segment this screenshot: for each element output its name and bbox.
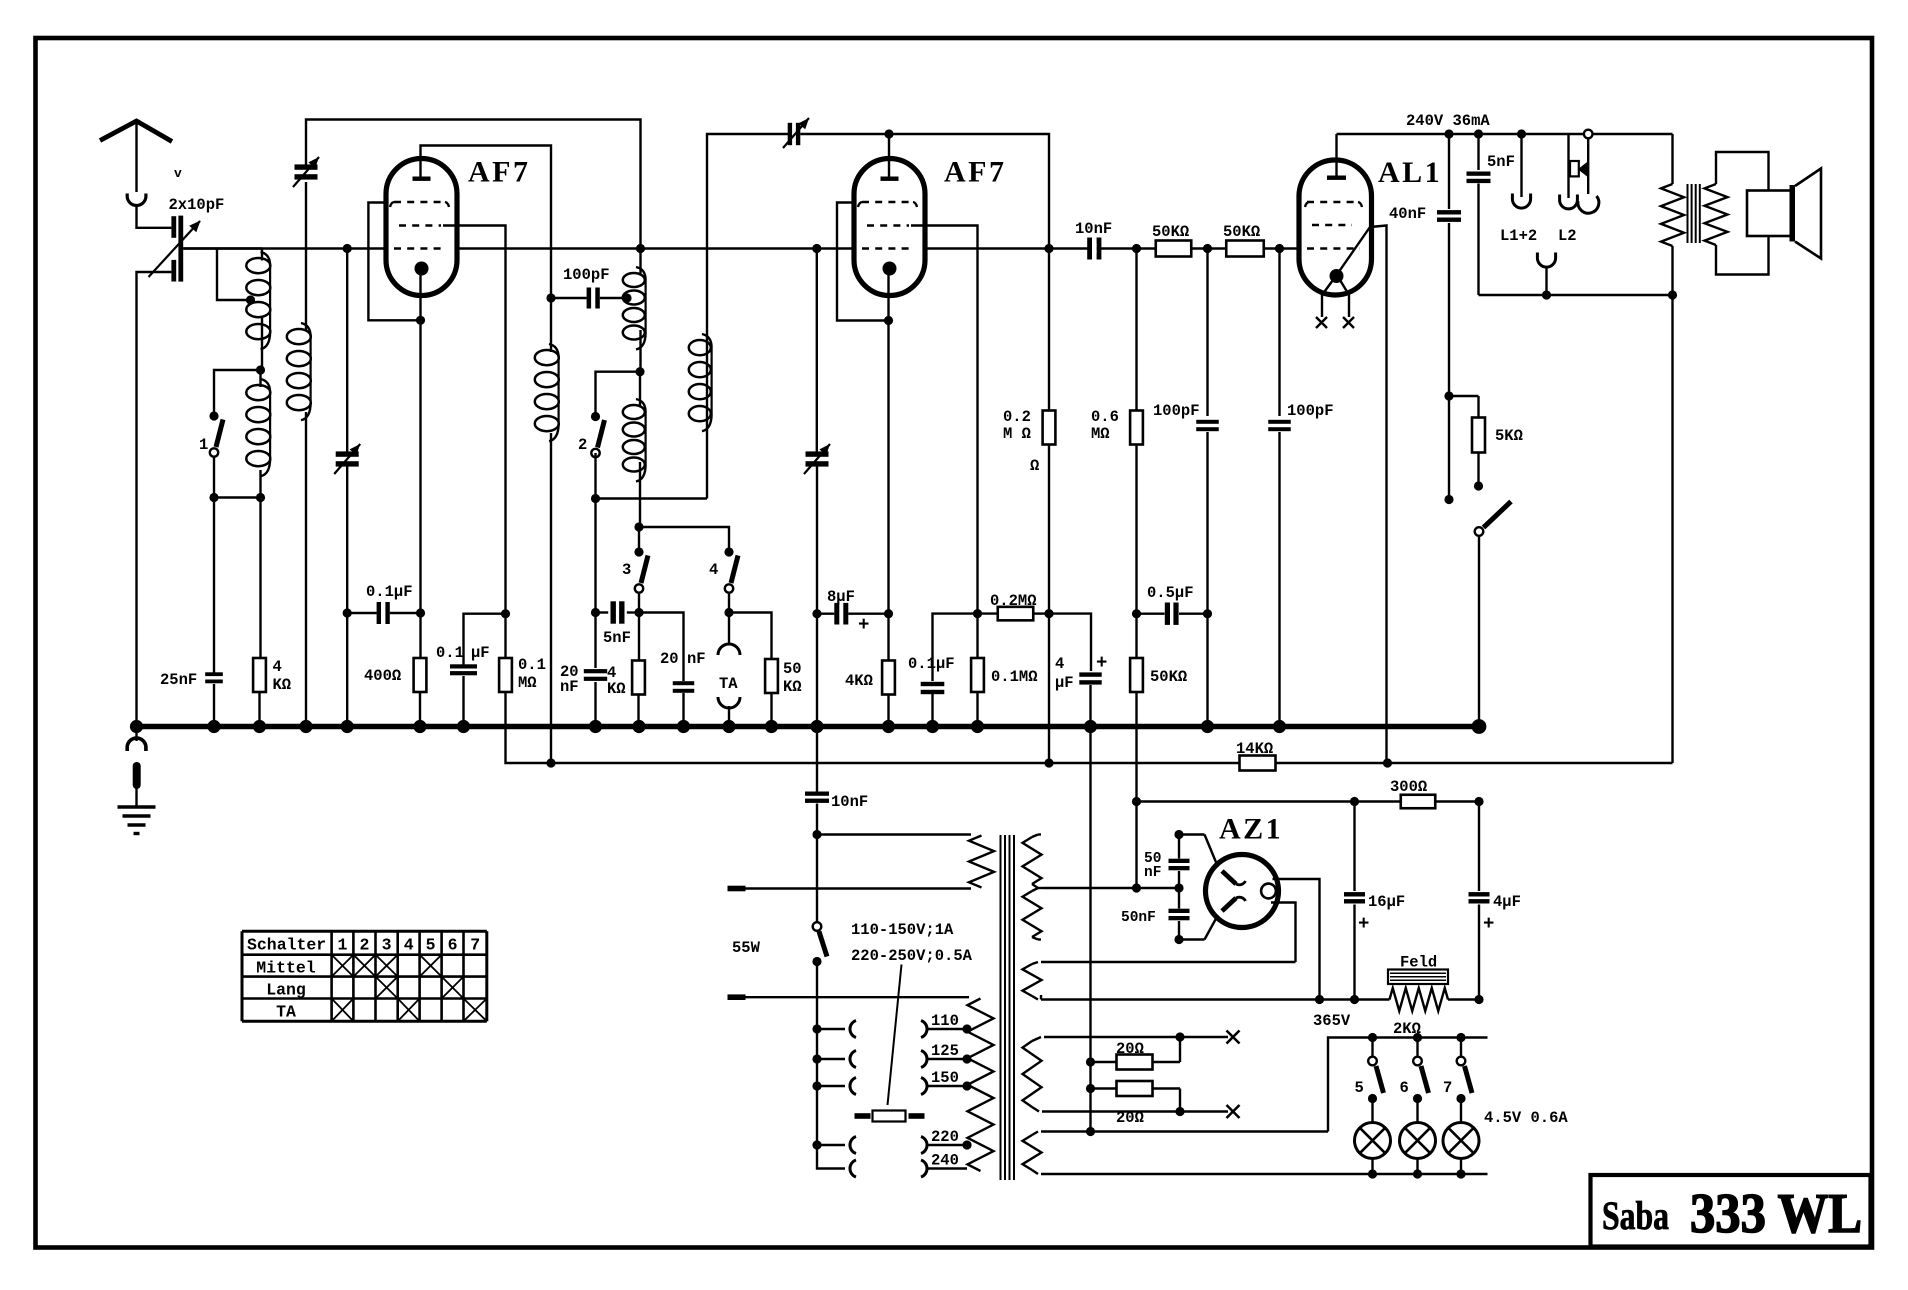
junction L1+2 top	[1517, 129, 1526, 138]
wire 0.1M to rail	[504, 692, 506, 694]
svg-text:M Ω: M Ω	[1003, 425, 1031, 443]
svg-text:5: 5	[1355, 1079, 1364, 1097]
speaker cone	[1795, 169, 1821, 259]
junction bus	[207, 720, 220, 733]
ground stub	[133, 762, 141, 789]
svg-text:Saba: Saba	[1602, 1193, 1669, 1238]
wire 100pF1 line	[1206, 249, 1208, 417]
wire branch to switch4	[639, 527, 729, 549]
wire to output transformer	[1593, 133, 1673, 135]
selector contacts right with taps	[921, 1021, 927, 1038]
transformer core	[1687, 184, 1689, 243]
svg-text:0.5µF: 0.5µF	[1147, 584, 1194, 602]
inductor coil3	[702, 334, 712, 348]
svg-text:MΩ: MΩ	[518, 674, 537, 692]
wire to 4K3	[887, 614, 889, 661]
junction bus	[1084, 720, 1097, 733]
wire AZ1 top-left	[1179, 833, 1205, 835]
junction lamp 6 top	[1413, 1033, 1422, 1042]
svg-text:150: 150	[931, 1069, 959, 1087]
connector L2 with switch	[1567, 135, 1569, 198]
svg-text:KΩ: KΩ	[607, 680, 626, 698]
capacitor 8uF electrolytic	[817, 613, 834, 615]
junction HV center	[1174, 883, 1183, 892]
lamp 6	[1416, 1099, 1418, 1123]
wire AZ1 bottom-left	[1179, 938, 1205, 940]
resistor 50K audio	[765, 659, 778, 693]
junction bus	[341, 720, 354, 733]
fuse	[855, 1113, 871, 1119]
junction coil2 tap 100pF	[622, 293, 631, 302]
svg-text:nF: nF	[560, 678, 579, 696]
svg-text:3: 3	[382, 936, 392, 955]
svg-text:+: +	[1483, 913, 1494, 935]
wire 0.2M to rail763	[1048, 614, 1050, 763]
junction 8uF left	[812, 609, 821, 618]
svg-text:55W: 55W	[732, 939, 761, 957]
wire to coil3 bottom	[596, 497, 708, 499]
junction 40nF top	[1444, 129, 1453, 138]
wire cathode2	[887, 274, 889, 321]
svg-text:8µF: 8µF	[827, 588, 855, 606]
wire branch to coil tap	[217, 249, 249, 301]
svg-text:0.1µF: 0.1µF	[366, 583, 413, 601]
svg-text:20: 20	[660, 650, 679, 668]
wire 20nF2 branch	[639, 613, 684, 682]
wire sw3 down	[638, 593, 640, 613]
capacitor 50nF upper	[1178, 835, 1180, 859]
svg-text:Mittel: Mittel	[256, 959, 316, 978]
connector L1+2	[1520, 134, 1522, 197]
junction sw4/TA/50K	[724, 608, 733, 617]
junction bus	[1201, 720, 1214, 733]
wire grid3 line	[924, 247, 1300, 249]
junction anode1 100pF	[546, 293, 555, 302]
resistor 20 second	[1086, 1084, 1095, 1093]
svg-text:4: 4	[404, 936, 414, 955]
junction sw2 bottom	[591, 494, 600, 503]
jack rest contact	[1570, 161, 1579, 176]
x mark TA 4	[398, 999, 420, 1022]
svg-text:5nF: 5nF	[1487, 153, 1515, 171]
wire cathode2 down	[887, 321, 889, 614]
wire 4K2 to bus	[637, 695, 639, 727]
junction 5K branch	[1444, 391, 1453, 400]
wire secondary bottom	[1716, 236, 1769, 275]
junction 300 left rail	[1132, 797, 1141, 806]
wire 0.1uF2 jog	[464, 614, 506, 665]
junction cathode2	[884, 316, 893, 325]
svg-text:AF7: AF7	[468, 156, 531, 189]
selector contacts left	[812, 1024, 821, 1033]
junction bus	[589, 720, 602, 733]
capacitor 4uF second electrolytic	[1469, 892, 1490, 896]
junction bus	[882, 720, 895, 733]
junction heater top	[1086, 1127, 1095, 1136]
svg-text:Feld: Feld	[1400, 954, 1437, 972]
junction coil mid	[256, 365, 265, 374]
wire join	[214, 496, 261, 498]
svg-text:0.6: 0.6	[1091, 408, 1119, 426]
wire top line y119	[306, 120, 641, 249]
svg-text:TA: TA	[276, 1003, 296, 1022]
capacitor 0.1uF cathode1	[347, 612, 376, 614]
junction anode1/rail	[546, 758, 555, 767]
wire T1 to coil2sec	[305, 182, 307, 331]
svg-text:Ω: Ω	[1030, 457, 1039, 475]
capacitor 25nF	[205, 672, 223, 676]
wire lamps bottom rail	[1041, 1173, 1488, 1175]
svg-text:L2: L2	[1558, 227, 1577, 245]
wire to 5K	[1449, 395, 1479, 397]
x mark Mittel 2	[353, 955, 375, 977]
junction bus	[413, 720, 426, 733]
capacitor 10nF mains	[805, 792, 829, 796]
svg-text:125: 125	[931, 1042, 959, 1060]
resistor 0.2M grid3	[1043, 411, 1056, 445]
resistor 50K third	[1130, 658, 1143, 692]
junction HV top	[1174, 830, 1183, 839]
inductor antenna coil upper	[261, 252, 271, 266]
x mark Mittel 5	[420, 955, 442, 977]
junction bus	[1273, 720, 1286, 733]
wire cathode feedback loop	[368, 203, 420, 321]
tube AF7 second	[854, 159, 925, 296]
wire to 400ohm	[419, 613, 421, 658]
capacitor 4uF electrolytic	[1079, 672, 1101, 676]
junction bus	[810, 720, 823, 733]
wire to mains switch	[816, 835, 818, 923]
wire 365V line	[1041, 998, 1390, 1000]
wire 16uF line	[1353, 802, 1355, 892]
svg-text:10nF: 10nF	[1075, 220, 1112, 238]
wire rail-763	[506, 694, 1673, 763]
wire to switch3	[638, 527, 640, 549]
junction bus	[971, 720, 984, 733]
AL1 cathode diagonal exit	[1338, 227, 1370, 273]
wire to bus	[346, 613, 348, 727]
wire HV center tap	[1044, 887, 1179, 889]
svg-text:20Ω: 20Ω	[1116, 1040, 1144, 1058]
wire 25nF to bus	[213, 684, 215, 727]
wire 240V line	[1337, 133, 1585, 135]
junction 16uF top	[1350, 797, 1359, 806]
wire selector pole	[816, 962, 818, 1146]
inductor osc coil lower	[636, 399, 646, 412]
junction transformer return	[1668, 290, 1677, 299]
wire coil1 top	[261, 249, 263, 261]
svg-text:2x10pF: 2x10pF	[169, 196, 225, 214]
svg-text:2: 2	[359, 936, 369, 955]
wire tube2 plate riser	[888, 134, 890, 177]
capacitor 2x10pF variable	[171, 216, 176, 238]
svg-text:7: 7	[1443, 1079, 1452, 1097]
capacitor 5nF	[596, 611, 609, 613]
svg-text:50: 50	[783, 660, 802, 678]
svg-text:25nF: 25nF	[160, 671, 197, 689]
resistor 4K second	[632, 661, 645, 695]
junction cup return	[1542, 290, 1551, 299]
inductor osc coil upper	[636, 267, 646, 280]
svg-text:6: 6	[448, 936, 458, 955]
resistor 0.2M coupling	[978, 612, 999, 614]
jack switch contact	[1587, 138, 1589, 194]
switch 3	[634, 547, 643, 556]
wire coil2 top	[639, 249, 641, 276]
junction lamp 5 bottom	[1368, 1169, 1377, 1178]
wire to 0.1M	[504, 614, 506, 658]
svg-text:100pF: 100pF	[563, 266, 610, 284]
junction bus	[457, 720, 470, 733]
resistor 300	[1401, 795, 1436, 809]
junction bus	[130, 720, 143, 733]
switch 2	[591, 412, 600, 421]
svg-text:0.1MΩ: 0.1MΩ	[991, 668, 1038, 686]
resistor 0.1M screen2	[971, 658, 984, 692]
wire bottom stator to ground line	[137, 272, 172, 727]
junction 4uF2 top	[1474, 797, 1483, 806]
junction lamp 7 top	[1456, 1033, 1465, 1042]
primary winding upper	[969, 836, 994, 888]
resistor 400	[414, 658, 427, 692]
junction grid2 node coil2 top	[636, 244, 645, 253]
svg-text:4µF: 4µF	[1493, 893, 1521, 911]
junction coil1 bottom	[256, 493, 265, 502]
junction bus	[299, 720, 312, 733]
switch 1	[209, 411, 218, 420]
junction sw1/coil1 bottom	[209, 493, 218, 502]
wire 4uF jog	[1049, 614, 1091, 671]
junction screen1 node	[501, 609, 510, 618]
x mark lead bottom	[1227, 1105, 1240, 1118]
connector TA jack	[728, 613, 730, 646]
svg-text:5KΩ: 5KΩ	[1495, 427, 1523, 445]
tube AL1	[1299, 160, 1372, 295]
svg-text:14KΩ: 14KΩ	[1236, 740, 1273, 758]
AL1 cathode	[1330, 269, 1344, 283]
junction 16uF bottom	[1350, 995, 1359, 1004]
capacitor trimmer T2	[336, 451, 359, 456]
wire coil1 lower top	[259, 370, 261, 387]
wire 50K2 to bus	[770, 693, 772, 727]
wire T2 to 0.1uF	[346, 466, 348, 613]
svg-text:+: +	[1096, 652, 1107, 674]
junction 0.2M right	[1044, 609, 1053, 618]
svg-text:TA: TA	[719, 675, 738, 693]
svg-text:50KΩ: 50KΩ	[1223, 223, 1260, 241]
svg-text:4: 4	[709, 561, 718, 579]
switch 6	[1416, 1038, 1418, 1058]
wire sw4 down	[728, 593, 730, 613]
wire 400 to bus	[419, 692, 421, 727]
wire lamps top rail	[1328, 1038, 1488, 1132]
svg-text:7: 7	[470, 936, 480, 955]
svg-text:10nF: 10nF	[831, 793, 868, 811]
resistor 4K first	[253, 658, 266, 692]
wire coil1 bottom	[259, 470, 261, 498]
svg-text:100pF: 100pF	[1287, 402, 1334, 420]
junction bus	[632, 720, 645, 733]
wire 4uF2 line	[1478, 802, 1480, 892]
svg-text:µF: µF	[936, 655, 955, 673]
svg-text:KΩ: KΩ	[273, 676, 292, 694]
wire switch to bus end	[1478, 536, 1480, 727]
capacitor 100pF second	[1268, 420, 1291, 424]
junction coil tap	[246, 295, 255, 304]
wire screen2	[911, 226, 978, 614]
resistor 0.1M screen1	[499, 658, 512, 692]
wire jack return	[1479, 294, 1673, 296]
svg-text:220-250V;0.5A: 220-250V;0.5A	[851, 947, 973, 965]
ground	[135, 788, 137, 806]
svg-text:Schalter: Schalter	[247, 936, 326, 955]
svg-text:AZ1: AZ1	[1219, 813, 1283, 846]
antenna	[100, 121, 172, 142]
x mark Mittel 1	[332, 955, 354, 977]
svg-text:240V 36mA: 240V 36mA	[1406, 112, 1490, 130]
wire switch2 down	[594, 453, 596, 499]
capacitor 100pF first	[1196, 420, 1219, 424]
svg-text:0.1: 0.1	[518, 656, 546, 674]
wire anode2 to 10nF corner	[889, 134, 1049, 249]
junction lamp 7 bottom	[1456, 1169, 1465, 1178]
wire coil1 mid	[261, 318, 263, 369]
svg-text:v: v	[174, 166, 182, 181]
lamp 7	[1460, 1099, 1462, 1123]
junction HV bottom	[1174, 935, 1183, 944]
wire coil sec to bus	[305, 412, 307, 727]
capacitor trimmer T1	[295, 164, 318, 169]
svg-text:µF: µF	[471, 644, 490, 662]
wire AL1 plate riser	[1335, 134, 1337, 176]
wire coil2 lower top	[639, 372, 641, 407]
capacitor 0.5uF	[1137, 613, 1165, 615]
inductor antenna secondary	[301, 323, 311, 337]
wire to 20nF1	[594, 613, 596, 669]
AZ1 anode small circle	[1261, 884, 1276, 899]
wire cathode2 loop	[837, 203, 889, 321]
capacitor trimmer T4	[806, 451, 829, 456]
x mark Lang 3	[376, 977, 398, 999]
resistor 0.6M	[1130, 411, 1143, 445]
svg-text:0.1: 0.1	[436, 644, 464, 662]
capacitor 10nF coupling	[1087, 238, 1092, 260]
connector open circle	[1584, 130, 1593, 139]
junction bus	[926, 720, 939, 733]
wire bias bottom row	[1042, 1110, 1180, 1112]
inductor HV secondary	[1023, 837, 1042, 884]
wire 20nF2 to bus	[682, 693, 684, 727]
tube AZ1	[1206, 855, 1279, 928]
wire to 4K2	[638, 613, 640, 662]
junction 0.1uF right	[416, 608, 425, 617]
resistor 20 first	[1086, 1057, 1095, 1066]
table Schalter	[242, 930, 487, 933]
wire grid2 line	[457, 247, 854, 249]
resistor 2K field coil	[1390, 988, 1449, 1011]
wire HV top hook	[1032, 835, 1038, 838]
x mark TA 1	[332, 999, 354, 1022]
switch 5	[1371, 1038, 1373, 1058]
connector return cup	[1537, 253, 1555, 268]
svg-text:240: 240	[931, 1152, 959, 1170]
wire cathode1 down	[419, 320, 421, 613]
junction 50K1 left	[1132, 244, 1141, 253]
wire plug1 to primary bottom	[746, 887, 972, 889]
inductor antenna coil lower	[261, 379, 271, 393]
wire antenna lead	[135, 122, 137, 192]
switch mains	[813, 922, 822, 931]
wire 0.6M line	[1135, 249, 1137, 411]
wire coil3 top riser	[707, 134, 789, 499]
wire grid2 down	[816, 249, 818, 453]
wire 300ohm rail	[1137, 800, 1480, 802]
junction switch pole	[1444, 495, 1453, 504]
wire 4K to bus	[258, 692, 260, 727]
junction 50K3 end	[1132, 883, 1141, 892]
svg-text:40nF: 40nF	[1389, 205, 1426, 223]
wire grid-leak power branch: 10nF	[816, 727, 818, 792]
svg-text:nF: nF	[1144, 865, 1161, 881]
wire screen1	[443, 226, 506, 614]
junction 50K right	[1275, 244, 1284, 253]
wire bias top row	[1044, 1036, 1180, 1038]
wire cap to bus	[462, 676, 464, 727]
junction cathode1	[416, 316, 425, 325]
svg-text:1: 1	[338, 936, 348, 955]
junction coil2 bottom	[634, 522, 643, 531]
title box	[1591, 1175, 1871, 1247]
wire to bus	[816, 614, 818, 727]
junction lamp 5 top	[1368, 1033, 1377, 1042]
Feld core box	[1388, 970, 1448, 985]
svg-text:50KΩ: 50KΩ	[1152, 223, 1189, 241]
AL1 filament legs	[1322, 280, 1333, 295]
junction 10nF left	[1044, 244, 1053, 253]
junction primary top	[812, 830, 821, 839]
wire switch1 down	[213, 457, 215, 498]
capacitor 16uF electrolytic	[1344, 892, 1365, 896]
junction 0.2M/rail	[1044, 758, 1053, 767]
junction 5nF left	[591, 608, 600, 617]
wire 4uF line below bus	[1089, 727, 1091, 1132]
capacitor 5nF output	[1467, 172, 1491, 176]
inductor output secondary	[1705, 184, 1728, 245]
lamp 5	[1371, 1099, 1373, 1123]
svg-text:L1+2: L1+2	[1500, 227, 1537, 245]
svg-text:5: 5	[426, 936, 436, 955]
capacitor 100pF interstage	[551, 297, 587, 299]
junction 20ohm2 right	[1175, 1107, 1184, 1116]
svg-text:0.2: 0.2	[1003, 408, 1031, 426]
capacitor 50nF lower	[1178, 888, 1180, 909]
junction bus	[253, 720, 266, 733]
x mark filament right	[1343, 317, 1354, 328]
wire 40nF line	[1448, 134, 1450, 209]
resistor 4K third	[882, 661, 895, 695]
capacitor 20nF first	[584, 669, 607, 673]
junction AZ1 365V	[1315, 995, 1324, 1004]
svg-text:µF: µF	[1055, 674, 1074, 692]
svg-text:4.5V 0.6A: 4.5V 0.6A	[1484, 1109, 1568, 1127]
arrow of 2x10pF	[149, 229, 194, 278]
wire 50K3 to AZ1 node	[1135, 692, 1137, 888]
svg-text:4KΩ: 4KΩ	[845, 672, 873, 690]
capacitor 0.1uF screen	[450, 664, 477, 668]
wire antenna to cap	[137, 207, 172, 228]
wire 5nF line	[1477, 134, 1479, 170]
speaker box	[1747, 191, 1791, 237]
